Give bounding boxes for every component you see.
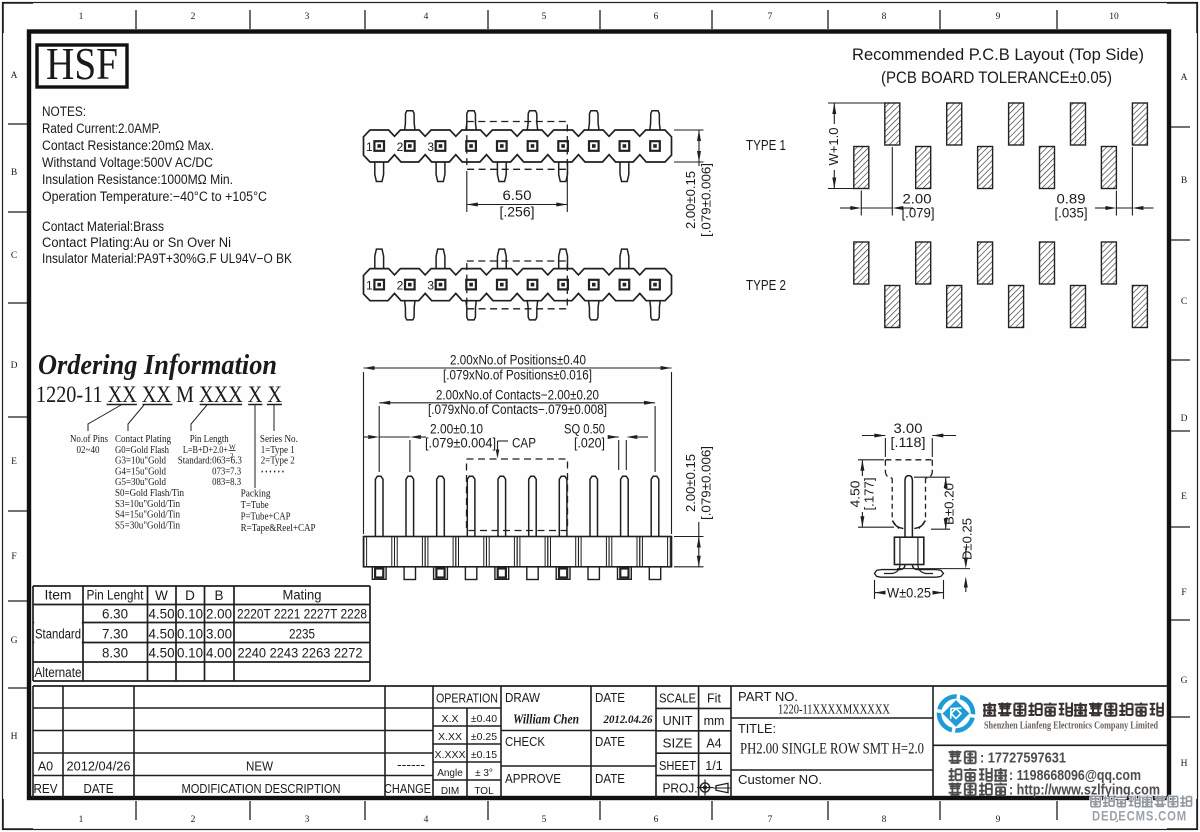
svg-text:Item: Item (45, 588, 72, 603)
svg-text:A: A (11, 71, 18, 81)
svg-text:B: B (11, 168, 17, 178)
svg-text:[.079xNo.of Contacts−.079±0.0: [.079xNo.of Contacts−.079±0.008] (428, 402, 607, 417)
svg-text:10: 10 (1109, 12, 1119, 22)
svg-text:G5=30u"Gold: G5=30u"Gold (115, 477, 166, 488)
svg-text:7.30: 7.30 (102, 627, 128, 642)
svg-text:Contact Plating: Contact Plating (115, 434, 171, 445)
svg-text:1=Type 1: 1=Type 1 (261, 445, 295, 456)
svg-text:C: C (1181, 297, 1187, 307)
svg-text:083=8.3: 083=8.3 (212, 477, 241, 488)
svg-text:T=Tube: T=Tube (241, 500, 269, 511)
svg-text:E: E (1181, 492, 1187, 502)
svg-text:4: 4 (424, 815, 429, 825)
svg-text:PROJ.: PROJ. (663, 782, 698, 796)
svg-text:5: 5 (542, 12, 547, 22)
svg-text:F: F (11, 552, 16, 562)
svg-text:8: 8 (882, 815, 887, 825)
svg-text:2.00: 2.00 (206, 607, 232, 622)
svg-text:2: 2 (397, 140, 404, 154)
svg-text:DIM: DIM (441, 786, 459, 797)
svg-text:5: 5 (542, 815, 547, 825)
svg-text:mm: mm (704, 714, 725, 728)
svg-text:4.50: 4.50 (149, 607, 175, 622)
svg-text:D: D (11, 361, 18, 371)
svg-text:2012/04/26: 2012/04/26 (67, 760, 131, 774)
svg-text:A4: A4 (706, 737, 721, 751)
svg-text:Insulator Material:PA9T+30%G.F: Insulator Material:PA9T+30%G.F UL94V−O B… (42, 251, 292, 266)
svg-text:[.079]: [.079] (902, 206, 935, 221)
svg-text:Packing: Packing (241, 489, 271, 500)
svg-text:F: F (1181, 588, 1186, 598)
svg-text:S3=10u"Gold/Tin: S3=10u"Gold/Tin (115, 499, 180, 510)
svg-text:0.89: 0.89 (1057, 192, 1086, 207)
svg-text:C: C (11, 251, 17, 261)
svg-text:2: 2 (397, 279, 404, 293)
svg-text:4.50: 4.50 (149, 627, 175, 642)
svg-text:Recommended P.C.B Layout (Top: Recommended P.C.B Layout (Top Side) (852, 45, 1144, 64)
svg-text:3: 3 (305, 815, 310, 825)
svg-text:TITLE:: TITLE: (738, 721, 776, 736)
svg-text:OPERATION: OPERATION (436, 692, 498, 706)
svg-text:A0: A0 (38, 760, 53, 774)
svg-text:X.XXX: X.XXX (435, 749, 466, 761)
svg-text:X.X: X.X (442, 713, 459, 725)
svg-text:4.50: 4.50 (848, 481, 863, 508)
svg-text:2.00xNo.of Positions±0.40: 2.00xNo.of Positions±0.40 (450, 353, 586, 368)
svg-text:±0.40: ±0.40 (471, 713, 497, 725)
svg-text:D±0.25: D±0.25 (960, 518, 975, 560)
svg-text:±0.25: ±0.25 (471, 731, 497, 743)
svg-text:G: G (1181, 676, 1188, 686)
svg-text:[.177]: [.177] (862, 478, 877, 511)
svg-text:3.00: 3.00 (206, 627, 232, 642)
svg-text:UNIT: UNIT (663, 714, 693, 728)
svg-text:± 3°: ± 3° (475, 768, 493, 779)
svg-text:0.10: 0.10 (177, 646, 203, 661)
svg-text:------: ------ (397, 757, 425, 772)
svg-text:9: 9 (996, 12, 1001, 22)
svg-text:Customer NO.: Customer NO. (738, 772, 822, 787)
svg-text:Contact Material:Brass: Contact Material:Brass (42, 219, 164, 234)
svg-text:Withstand Voltage:500V AC/DC: Withstand Voltage:500V AC/DC (42, 155, 213, 170)
svg-text:E: E (11, 457, 17, 467)
svg-text:Angle: Angle (437, 768, 463, 779)
svg-text:W: W (155, 588, 168, 603)
svg-text:3: 3 (305, 12, 310, 22)
svg-text:S4=15u"Gold/Tin: S4=15u"Gold/Tin (115, 510, 180, 521)
svg-text:(PCB BOARD TOLERANCE±0.05): (PCB BOARD TOLERANCE±0.05) (881, 68, 1112, 87)
svg-text:L=B+D+2.0+: L=B+D+2.0+ (183, 445, 228, 456)
svg-text:P=Tube+CAP: P=Tube+CAP (241, 512, 291, 523)
svg-text:[.035]: [.035] (1055, 206, 1088, 221)
svg-text:4.00: 4.00 (206, 646, 232, 661)
svg-text:Shenzhen Lianfeng Electronics: Shenzhen Lianfeng Electronics Company Li… (984, 721, 1158, 732)
svg-text:NEW: NEW (246, 760, 273, 774)
svg-text:6.30: 6.30 (102, 607, 128, 622)
svg-text:[.079±0.006]: [.079±0.006] (699, 446, 714, 520)
svg-text:DEDECMS.COM: DEDECMS.COM (1092, 809, 1187, 824)
svg-text:G3=10u"Gold: G3=10u"Gold (115, 456, 166, 467)
svg-text:2: 2 (191, 12, 196, 22)
svg-text:: http://www.szlfying.com: : http://www.szlfying.com (1009, 783, 1160, 799)
svg-text:B: B (214, 588, 223, 603)
svg-text:6: 6 (654, 12, 659, 22)
svg-text:6.50: 6.50 (503, 188, 532, 203)
svg-text:H: H (11, 732, 18, 742)
svg-text:Pin Length: Pin Length (190, 434, 229, 445)
svg-text:SCALE: SCALE (659, 692, 696, 706)
svg-text:William Chen: William Chen (513, 712, 579, 727)
svg-text:8.30: 8.30 (102, 646, 128, 661)
svg-text:W±0.25: W±0.25 (887, 585, 931, 600)
svg-text:Mating: Mating (283, 588, 322, 603)
svg-text:9: 9 (996, 815, 1001, 825)
svg-text:Series No.: Series No. (260, 434, 298, 445)
svg-text:SQ 0.50: SQ 0.50 (564, 422, 605, 437)
svg-text:Operation Temperature:−40°C to: Operation Temperature:−40°C to +105°C (42, 189, 267, 204)
svg-text:3.00: 3.00 (894, 421, 923, 436)
svg-text:0.10: 0.10 (177, 627, 203, 642)
svg-text:R=Tape&Reel+CAP: R=Tape&Reel+CAP (241, 523, 316, 534)
svg-text:Pin Lenght: Pin Lenght (87, 588, 144, 603)
svg-text:D: D (185, 588, 195, 603)
svg-text:Contact Plating:Au or Sn Over: Contact Plating:Au or Sn Over Ni (42, 235, 231, 250)
svg-text:3: 3 (427, 279, 434, 293)
svg-text:X.XX: X.XX (438, 731, 462, 743)
svg-text:1: 1 (366, 279, 373, 293)
svg-text:[.079±0.006]: [.079±0.006] (699, 163, 714, 237)
svg-text:Rated Current:2.0AMP.: Rated Current:2.0AMP. (42, 121, 161, 136)
svg-text:CHANGE: CHANGE (384, 782, 431, 796)
svg-text:Alternate: Alternate (35, 665, 82, 680)
svg-text:DATE: DATE (595, 735, 625, 749)
svg-text:Standard:063=6.3: Standard:063=6.3 (178, 456, 242, 467)
svg-text:Standard: Standard (35, 627, 81, 642)
svg-text:2.00±0.15: 2.00±0.15 (683, 171, 698, 229)
svg-text:2.00: 2.00 (903, 192, 932, 207)
svg-text:APPROVE: APPROVE (505, 772, 561, 786)
svg-text:DATE: DATE (84, 782, 114, 796)
svg-text:6: 6 (654, 815, 659, 825)
svg-text:······: ······ (261, 464, 286, 479)
svg-text:DATE: DATE (595, 772, 625, 786)
svg-text:1: 1 (79, 815, 84, 825)
svg-text:H: H (1181, 759, 1188, 769)
svg-text:073=7.3: 073=7.3 (212, 466, 241, 477)
svg-text:2.00xNo.of Contacts−2.00±0.20: 2.00xNo.of Contacts−2.00±0.20 (436, 388, 599, 403)
svg-text:MODIFICATION DESCRIPTION: MODIFICATION DESCRIPTION (182, 782, 341, 796)
svg-text:8: 8 (882, 12, 887, 22)
svg-text:No.of Pins: No.of Pins (70, 434, 108, 445)
svg-text:±0.15: ±0.15 (471, 749, 497, 761)
svg-text:4.50: 4.50 (149, 646, 175, 661)
svg-text:Insulation Resistance:1000MΩ M: Insulation Resistance:1000MΩ Min. (42, 172, 233, 187)
svg-text:[.118]: [.118] (891, 435, 926, 450)
svg-text:Contact Resistance:20mΩ Max.: Contact Resistance:20mΩ Max. (42, 138, 214, 153)
svg-text:4: 4 (424, 12, 429, 22)
svg-text:W: W (229, 443, 236, 451)
svg-text:3: 3 (427, 140, 434, 154)
svg-text:Ordering Information: Ordering Information (38, 350, 277, 381)
svg-text:CHECK: CHECK (505, 735, 546, 749)
svg-text:1/1: 1/1 (705, 759, 722, 773)
svg-text:SIZE: SIZE (663, 737, 693, 751)
svg-text:2235: 2235 (289, 627, 315, 642)
svg-text:G: G (11, 636, 18, 646)
svg-text:[.079±0.004]: [.079±0.004] (425, 436, 496, 451)
svg-text:TYPE 1: TYPE 1 (746, 137, 786, 154)
svg-text:2.00±0.10: 2.00±0.10 (430, 422, 483, 437)
svg-text:7: 7 (768, 12, 773, 22)
svg-text:2220T 2221 2227T 2228: 2220T 2221 2227T 2228 (237, 607, 367, 622)
svg-text:02~40: 02~40 (77, 445, 100, 456)
svg-text:W+1.0: W+1.0 (826, 128, 841, 166)
svg-text:B±0.20: B±0.20 (942, 483, 957, 525)
svg-text:S0=Gold Flash/Tin: S0=Gold Flash/Tin (115, 488, 184, 499)
svg-text:0.10: 0.10 (177, 607, 203, 622)
svg-text:D: D (1181, 414, 1188, 424)
svg-text:CAP: CAP (512, 436, 536, 451)
svg-text:1220-11XXXXMXXXXX: 1220-11XXXXMXXXXX (778, 703, 890, 718)
svg-text:TYPE 2: TYPE 2 (746, 277, 786, 294)
svg-text:1220-11 XX XX M XXX X X: 1220-11 XX XX M XXX X X (36, 382, 282, 407)
svg-text:A: A (1181, 73, 1188, 83)
svg-text:1: 1 (79, 12, 84, 22)
svg-text:: 17727597631: : 17727597631 (980, 751, 1066, 767)
svg-text:1: 1 (366, 140, 373, 154)
svg-text:2240 2243 2263 2272: 2240 2243 2263 2272 (238, 646, 363, 661)
svg-text:G4=15u"Gold: G4=15u"Gold (115, 466, 166, 477)
svg-text:7: 7 (768, 815, 773, 825)
svg-text:DRAW: DRAW (505, 691, 540, 705)
svg-text:B: B (1181, 176, 1187, 186)
svg-text:TOL: TOL (474, 786, 494, 797)
svg-text:PH2.00 SINGLE ROW SMT H=2.0: PH2.00 SINGLE ROW SMT H=2.0 (740, 741, 924, 758)
svg-text:REV: REV (34, 782, 59, 796)
svg-text:[.020]: [.020] (574, 436, 605, 451)
svg-text:Fit: Fit (707, 692, 721, 706)
svg-text:SHEET: SHEET (659, 759, 696, 773)
svg-text:2.00±0.15: 2.00±0.15 (683, 454, 698, 512)
svg-text:S5=30u"Gold/Tin: S5=30u"Gold/Tin (115, 520, 180, 531)
svg-text:[.256]: [.256] (500, 205, 535, 220)
svg-text:G0=Gold Flash: G0=Gold Flash (115, 445, 169, 456)
svg-text:2: 2 (191, 815, 196, 825)
svg-text:[.079xNo.of Positions±0.016]: [.079xNo.of Positions±0.016] (443, 368, 592, 383)
svg-text:HSF: HSF (46, 38, 118, 89)
svg-text:2012.04.26: 2012.04.26 (603, 712, 653, 726)
svg-text:NOTES:: NOTES: (42, 104, 86, 119)
svg-text:DATE: DATE (595, 691, 625, 705)
